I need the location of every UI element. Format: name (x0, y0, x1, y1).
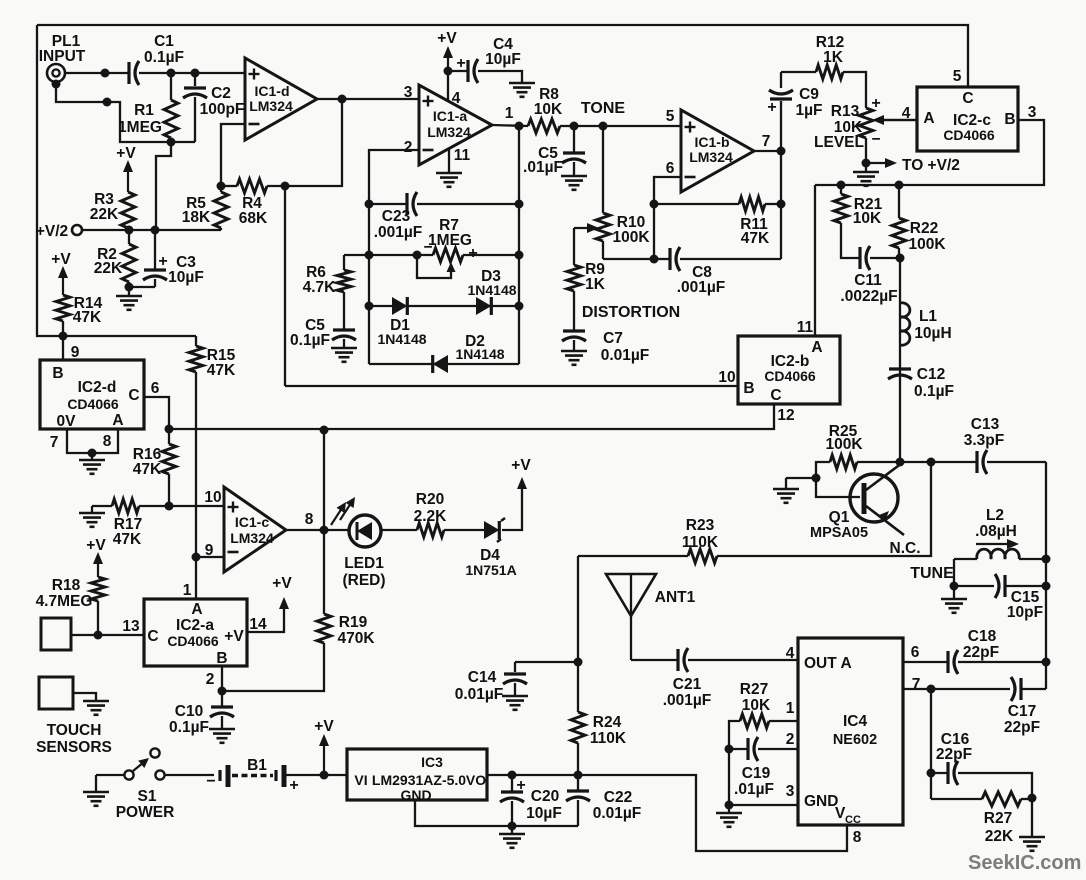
svg-text:INPUT: INPUT (39, 48, 86, 65)
wire R23 to oscillator node (717, 462, 931, 556)
svg-text:L1: L1 (919, 308, 937, 325)
svg-text:1K: 1K (823, 49, 844, 66)
svg-text:C1: C1 (154, 33, 174, 50)
svg-text:C10: C10 (175, 703, 203, 720)
svg-text:1N751A: 1N751A (465, 562, 516, 578)
wire LED1 to R20 (381, 529, 417, 531)
wire S1 to battery (165, 774, 214, 776)
svg-text:100K: 100K (612, 229, 650, 246)
svg-text:R22: R22 (910, 220, 938, 237)
ground tank (941, 586, 967, 613)
regulator IC3 box (347, 749, 487, 800)
capacitor C1 (127, 62, 130, 84)
ground at pin 11 (436, 172, 462, 175)
op-amp IC1-a (419, 85, 492, 165)
svg-text:C14: C14 (468, 669, 497, 686)
svg-text:100K: 100K (908, 236, 946, 253)
resistor R8 (528, 119, 560, 133)
svg-text:C23: C23 (382, 208, 411, 225)
wire diode-net left riser (368, 204, 370, 364)
wire C17 to right riser (1021, 688, 1046, 690)
svg-text:0V: 0V (57, 413, 77, 430)
svg-text:LM324: LM324 (689, 149, 733, 165)
resistor R12 (781, 65, 866, 108)
svg-text:11: 11 (797, 319, 814, 336)
svg-text:NE602: NE602 (833, 732, 877, 748)
svg-text:VO: VO (466, 772, 486, 788)
node IC1-a output (515, 122, 524, 131)
label S1 POWER (116, 788, 175, 821)
ground at S1 (83, 775, 109, 806)
ground at Q1 base divider (773, 478, 799, 503)
svg-text:B: B (52, 365, 63, 382)
wire riser hold bus to IC1-c output (323, 430, 325, 530)
inductor L1 (900, 303, 910, 345)
node R22 top (895, 181, 904, 190)
label R7 value (428, 217, 472, 249)
svg-text:B: B (216, 650, 227, 667)
svg-text:4: 4 (786, 645, 795, 662)
svg-text:C2: C2 (211, 85, 231, 102)
node R4 right (281, 182, 290, 191)
svg-text:.001µF: .001µF (374, 224, 423, 241)
node C23 left (365, 200, 374, 209)
svg-text:A: A (112, 412, 123, 429)
node C14 junction (574, 658, 583, 667)
capacitor C4 (466, 60, 469, 82)
capacitor C22 (566, 775, 590, 826)
label R18 value (36, 577, 93, 610)
resistor R3 (121, 192, 135, 230)
wire level bus y=185 (815, 120, 1044, 185)
wire pad 1 to node (71, 634, 98, 636)
wire ground to S1 (96, 774, 124, 776)
svg-text:22pF: 22pF (936, 746, 972, 763)
op-amp IC1-d (245, 58, 317, 140)
wire tank left riser (953, 559, 955, 586)
node +V supply junction (320, 771, 329, 780)
svg-text:18K: 18K (182, 209, 211, 226)
svg-text:.01µF: .01µF (734, 781, 774, 798)
svg-text:9: 9 (205, 542, 214, 559)
capacitor C3 (129, 230, 167, 287)
svg-text:+V: +V (272, 575, 292, 592)
node hold bus to LED node (320, 426, 329, 435)
node R13 bottom (862, 159, 871, 168)
resistor R18 (91, 577, 105, 635)
capacitor C13 (931, 450, 1046, 474)
label R8 value (534, 86, 563, 118)
node C19 left (725, 745, 734, 754)
svg-text:+V: +V (437, 30, 457, 47)
svg-text:2: 2 (786, 731, 795, 748)
capacitor C8 (654, 247, 781, 271)
svg-text:LM324: LM324 (249, 98, 293, 114)
LED light arrows (331, 497, 355, 525)
wire pad 2 to ground (73, 693, 96, 700)
wire IC2-a pin 1 from pin9 node (195, 557, 197, 599)
wire hold bus from IC2-d C to IC2-b pin 12 (169, 404, 774, 429)
label C15 value (1007, 589, 1043, 621)
wire antenna to C21 (631, 659, 678, 661)
svg-text:TOUCH: TOUCH (47, 722, 102, 739)
svg-text:100pF: 100pF (200, 101, 245, 118)
svg-text:10µF: 10µF (168, 269, 204, 286)
wire IC2-d pin 9 (62, 336, 64, 360)
node junction on sleeve wire (103, 98, 112, 107)
label R19 value (337, 614, 375, 647)
svg-text:IC1-a: IC1-a (433, 108, 467, 124)
arrow R13 wiper (880, 119, 917, 121)
svg-text:C21: C21 (673, 676, 702, 693)
svg-text:−: − (871, 131, 880, 148)
mixer IC4 box (798, 638, 903, 825)
label L2 value (975, 507, 1017, 540)
svg-text:C20: C20 (531, 788, 559, 805)
power +V arrow above R14 (51, 251, 71, 295)
svg-text:A: A (923, 110, 934, 127)
svg-text:1: 1 (505, 105, 514, 122)
capacitor C18 (946, 651, 949, 673)
svg-text:C18: C18 (968, 628, 997, 645)
inductor L2 (954, 549, 1046, 559)
power +V arrow above battery node (314, 718, 334, 775)
switch IC2-b box (738, 336, 840, 404)
label TOUCH SENSORS (36, 722, 112, 756)
label L1 value (914, 308, 951, 342)
wire output riser to R4 (285, 99, 342, 186)
label R21 value (853, 196, 883, 227)
resistor R19 (222, 530, 331, 691)
capacitor C15 (954, 574, 1046, 598)
svg-text:R27: R27 (984, 810, 1012, 827)
svg-text:+V: +V (511, 457, 531, 474)
svg-text:C13: C13 (971, 416, 1000, 433)
svg-text:A: A (811, 339, 822, 356)
power +V arrow at pin 14 (272, 575, 292, 609)
label C4 value (485, 36, 521, 68)
svg-text:10K: 10K (853, 210, 882, 227)
label C13 value (964, 416, 1004, 449)
wire C4 to ground (478, 71, 522, 82)
svg-text:(RED): (RED) (342, 572, 385, 589)
touch sensor pad 1 (41, 618, 71, 650)
wire IC3 GND leg (415, 800, 578, 826)
svg-text:22K: 22K (90, 206, 119, 223)
LED LED1 (349, 515, 381, 547)
wire V+ to C4 (448, 70, 468, 72)
svg-text:R1: R1 (134, 102, 154, 119)
svg-text:47K: 47K (133, 461, 162, 478)
wire IC1-a output (492, 125, 528, 126)
ground below R13 (853, 163, 879, 186)
diode D3 (476, 297, 491, 315)
svg-text:CD4066: CD4066 (167, 633, 219, 649)
svg-text:LED1: LED1 (344, 555, 384, 572)
label R27 22K value (984, 810, 1014, 845)
label R23 value (682, 517, 719, 551)
label R20 value (414, 491, 448, 525)
power +V arrow above IC1-a (437, 30, 457, 71)
label C23 value (374, 208, 423, 241)
svg-text:7: 7 (912, 676, 921, 693)
wire C1 to IC1-d noninverting input (139, 72, 245, 74)
svg-text:10pF: 10pF (1007, 604, 1043, 621)
potentiometer R7 (417, 248, 463, 278)
label C16 value (936, 731, 972, 763)
svg-text:1MEG: 1MEG (428, 232, 472, 249)
svg-text:+V: +V (314, 718, 334, 735)
label C21 value (663, 676, 712, 709)
svg-text:+V: +V (51, 251, 71, 268)
resistor R4 (221, 179, 285, 193)
svg-text:+: + (289, 777, 298, 794)
label R2 value (94, 246, 123, 277)
resistor R20 (417, 523, 444, 537)
resistor R14 (56, 295, 70, 336)
label C5 0.1uF value (290, 317, 330, 349)
arrow TO +V/2 (870, 157, 960, 174)
node R25 base node (812, 474, 821, 483)
resistor R24 (571, 662, 585, 775)
svg-text:ANT1: ANT1 (655, 589, 696, 606)
svg-text:R18: R18 (52, 577, 81, 594)
node D1 line left (365, 302, 374, 311)
svg-text:C: C (962, 90, 973, 107)
wire diode-net right riser (518, 126, 520, 364)
svg-text:CD4066: CD4066 (67, 396, 119, 412)
label C22 value (593, 789, 642, 822)
capacitor C10 (210, 691, 234, 728)
resistor R17 (112, 499, 169, 513)
wire D4 to +V (502, 487, 522, 530)
wire IC1-a inverting input (369, 150, 419, 204)
label R25 value (825, 423, 863, 453)
svg-text:+: + (456, 55, 465, 72)
svg-text:47K: 47K (113, 531, 142, 548)
node tank C15 (1042, 582, 1051, 591)
wire R11 line (654, 203, 739, 205)
node R7 line left (365, 251, 374, 260)
svg-text:3: 3 (1028, 104, 1037, 121)
wire C18 to tank (958, 661, 1046, 663)
wire C9 to pin 7 (780, 101, 782, 151)
svg-text:+V/2: +V/2 (36, 223, 68, 240)
svg-text:10K: 10K (742, 697, 771, 714)
capacitor C19 (729, 737, 798, 761)
node C18 right (1042, 658, 1051, 667)
wire right riser C13 to C17 (1045, 462, 1047, 689)
node R1 top (167, 69, 176, 78)
label R1 value (118, 102, 162, 136)
capacitor C17 (1011, 677, 1015, 701)
wire pin7 node down (930, 689, 932, 799)
node TONE junction (599, 122, 608, 131)
wire D2 line (369, 363, 519, 365)
svg-text:−: − (206, 773, 215, 790)
svg-text:C7: C7 (603, 330, 623, 347)
svg-text:.0022µF: .0022µF (840, 288, 897, 305)
svg-text:+: + (516, 777, 525, 794)
label R12 value (816, 34, 844, 66)
label D1 (377, 317, 426, 347)
svg-text:68K: 68K (239, 210, 268, 227)
svg-text:IC4: IC4 (843, 713, 868, 730)
ground below R2/C3 (116, 287, 142, 310)
resistor R11 (739, 197, 781, 211)
node R21 top (837, 181, 846, 190)
svg-text:N.C.: N.C. (890, 540, 921, 557)
potentiometer R10 (596, 213, 610, 259)
svg-text:CD4066: CD4066 (943, 127, 995, 143)
label C10 value (169, 703, 209, 736)
wire R16 node to IC1-c pin 10 (169, 505, 224, 507)
resistor R9 (567, 265, 581, 330)
label R10 value (612, 214, 650, 246)
resistor R1 (164, 73, 178, 142)
svg-text:IC1-b: IC1-b (695, 134, 730, 150)
label C20 value (526, 788, 562, 822)
capacitor C21 (676, 649, 679, 671)
wire D1/D3 line (369, 305, 519, 307)
svg-text:OUT A: OUT A (804, 655, 852, 672)
label C5 .01uF value (523, 145, 563, 176)
resistor R16 (162, 429, 176, 506)
svg-text:C9: C9 (799, 86, 819, 103)
wire PL1 sleeve loop (52, 80, 196, 143)
resistor R22 (892, 185, 906, 258)
node R11 right (777, 200, 786, 209)
resistor R23 (688, 549, 717, 563)
switch IC2-a box (144, 599, 247, 666)
label C11 value (840, 272, 897, 305)
node C2 top (191, 69, 200, 78)
svg-text:LM324: LM324 (230, 530, 274, 546)
node R21/C11 to L1 (896, 254, 905, 263)
svg-text:1K: 1K (585, 276, 606, 293)
node pin 7 junction (777, 147, 786, 156)
switch IC2-d box (40, 360, 144, 429)
diode D2 (433, 355, 448, 373)
svg-text:1: 1 (786, 700, 795, 717)
svg-text:11: 11 (454, 147, 471, 164)
svg-text:IC3: IC3 (421, 754, 443, 770)
svg-text:0.1µF: 0.1µF (290, 332, 330, 349)
label C1 value (144, 33, 184, 66)
power +V arrow above R18 (86, 537, 106, 577)
svg-text:1MEG: 1MEG (118, 119, 162, 136)
wire R23 left segment (578, 555, 688, 557)
touch sensor pad 2 (39, 677, 73, 709)
node R7 line right (515, 251, 524, 260)
ground below C5 (331, 347, 357, 350)
label D4 (465, 547, 516, 578)
svg-text:R24: R24 (593, 714, 622, 731)
switch IC2-c box (917, 87, 1018, 151)
capacitor C2 (183, 73, 207, 142)
svg-text:Q1: Q1 (829, 509, 850, 526)
node pin 2 junction (218, 687, 227, 696)
node R27 22K right (1028, 794, 1037, 803)
node R3/R2 junction (125, 226, 134, 235)
label C7 value (601, 330, 650, 364)
svg-text:+V: +V (116, 145, 136, 162)
ground below C7 (561, 350, 587, 353)
terminal +V/2 (72, 225, 82, 235)
svg-text:+V: +V (86, 537, 106, 554)
node GND leg C20 (508, 822, 517, 831)
svg-text:6: 6 (666, 160, 675, 177)
svg-text:B: B (1004, 111, 1015, 128)
node tank top (1042, 555, 1051, 564)
svg-text:6: 6 (151, 380, 160, 397)
antenna ANT1 (606, 574, 656, 660)
label C17 value (1004, 703, 1040, 736)
svg-text:10µF: 10µF (526, 805, 562, 822)
wire riser R4 node to pin10 bus (284, 186, 286, 386)
wire pin 13 (98, 634, 144, 636)
svg-text:S1: S1 (138, 788, 157, 805)
node R2 bottom (125, 283, 134, 292)
node R14 bottom (59, 332, 68, 341)
ground below C20 (499, 826, 525, 848)
svg-text:.08µH: .08µH (975, 523, 1017, 540)
node C23 right (515, 200, 524, 209)
wire IC1-b output (754, 150, 781, 152)
wire IC2-d pins 7 and 8 to ground (67, 429, 118, 453)
wire pin 7 to C17 (903, 688, 931, 690)
label R24 value (590, 714, 627, 747)
svg-text:2: 2 (206, 671, 215, 688)
label D3 (467, 268, 516, 298)
svg-text:0.1µF: 0.1µF (144, 49, 184, 66)
svg-text:L2: L2 (986, 507, 1004, 524)
label C12 value (914, 366, 954, 400)
capacitor C11 (860, 246, 900, 270)
svg-text:.001µF: .001µF (677, 279, 726, 296)
svg-text:12: 12 (777, 407, 794, 424)
svg-text:3: 3 (786, 783, 795, 800)
ground below pin 3 node (716, 805, 742, 827)
svg-text:10µF: 10µF (485, 51, 521, 68)
ground touch pad 2 (83, 700, 109, 703)
capacitor C23 (369, 192, 519, 216)
svg-text:R19: R19 (339, 614, 368, 631)
label R17 value (113, 516, 142, 548)
node IC1-c pin 9 junction (192, 553, 201, 562)
wire IC2-a pin 2 (221, 666, 223, 691)
wire top control bus to IC2-c pin 5 (37, 25, 968, 87)
svg-text:1N4148: 1N4148 (377, 331, 426, 347)
capacitor C12 (889, 367, 911, 370)
node junction on input wire (101, 69, 110, 78)
svg-text:110K: 110K (590, 730, 627, 747)
ground below C14 (502, 695, 528, 698)
wire +V/2 rail (82, 229, 221, 231)
op-amp IC1-b (681, 110, 754, 192)
node pin 3 ground (725, 801, 734, 810)
capacitor C14 (503, 662, 578, 695)
svg-text:4.7MEG: 4.7MEG (36, 593, 93, 610)
wire IC2-b pin 11 riser (814, 185, 816, 336)
wire IC2-a pin 14 to +V (247, 600, 284, 632)
svg-text:6: 6 (911, 644, 920, 661)
label C19 value (734, 765, 774, 798)
node D1 line right (515, 302, 524, 311)
wire R7 line (344, 254, 519, 256)
svg-text:+: + (871, 95, 880, 112)
svg-text:A: A (191, 601, 202, 618)
